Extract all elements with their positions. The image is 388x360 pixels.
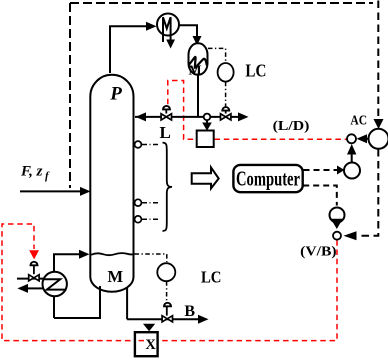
ratio station circle xyxy=(344,163,360,179)
drum liquid level xyxy=(189,57,206,68)
dashed computer to ratio station xyxy=(304,169,339,171)
reboiler bottom loop xyxy=(53,296,55,318)
arrow into column base xyxy=(79,250,90,259)
outer dashed border left xyxy=(69,3,71,188)
outer dashed border right lower xyxy=(357,149,378,236)
dashed LC to B valve xyxy=(166,281,168,301)
condenser coolant coil xyxy=(163,17,171,42)
steam inlet line xyxy=(17,278,43,280)
svg-text:M: M xyxy=(108,267,124,286)
svg-text:F, z: F, z xyxy=(20,164,43,180)
condensate out line xyxy=(27,287,43,289)
svg-text:AC: AC xyxy=(350,113,367,128)
condenser outlet pipe xyxy=(179,25,197,37)
analyzer box X xyxy=(135,332,158,356)
svg-text:X: X xyxy=(145,337,156,353)
svg-text:LC: LC xyxy=(245,60,266,80)
svg-text:(V/B): (V/B) xyxy=(300,245,337,260)
reboiler coil xyxy=(43,279,66,289)
red dash visible inside analyzer box xyxy=(139,340,144,342)
column vapor pipe xyxy=(110,26,150,73)
big hollow arrow xyxy=(192,167,219,188)
V/B station triangle xyxy=(331,219,343,229)
arrow into reflux drum xyxy=(193,36,202,46)
AC junction small circle xyxy=(347,134,356,143)
svg-text:B: B xyxy=(184,303,195,320)
tray sensor 2 xyxy=(135,199,142,206)
steam valve actuator xyxy=(31,262,38,265)
valve L (reflux) xyxy=(161,114,171,120)
V/B station circle xyxy=(330,208,345,223)
Computer box xyxy=(233,165,302,192)
curly brace xyxy=(163,143,173,231)
red arrow onto steam valve xyxy=(29,250,39,259)
condenser U1 xyxy=(157,14,179,36)
column bottoms level wavy line xyxy=(91,253,134,255)
svg-text:P: P xyxy=(109,84,122,105)
condensate out arrow xyxy=(17,284,28,293)
valve L (reflux) actuator xyxy=(163,106,170,109)
valve D (distillate) xyxy=(221,114,231,120)
outer dashed border top xyxy=(70,2,373,4)
feed line xyxy=(20,190,81,192)
svg-text:M: M xyxy=(188,64,201,79)
dashed LC to D valve xyxy=(225,82,227,107)
red dashed signal V/B to reboiler valve xyxy=(2,224,337,341)
steam valve stem xyxy=(33,265,35,274)
column bottom left pipe xyxy=(54,286,100,318)
feed arrow xyxy=(80,187,91,196)
level controller LC (bottom) xyxy=(157,263,175,281)
svg-text:(L/D): (L/D) xyxy=(273,119,310,134)
distillate line xyxy=(135,116,242,118)
reboiler E1 xyxy=(43,272,67,296)
arrow into multiplier box xyxy=(206,120,208,123)
V/B junction small circle xyxy=(333,232,341,240)
svg-text:L: L xyxy=(160,123,171,142)
svg-text:Computer: Computer xyxy=(236,167,300,191)
tray sensor 3 xyxy=(135,216,142,223)
arrow into X analyzer xyxy=(143,324,155,332)
reboiler circulation riser xyxy=(54,254,80,272)
coolant out arrow xyxy=(166,40,175,49)
valve B actuator xyxy=(164,303,171,306)
reflux drum xyxy=(189,43,208,74)
bottoms line B xyxy=(127,318,202,320)
valve B xyxy=(162,316,172,322)
column shell xyxy=(90,75,133,292)
dashed computer to V/B xyxy=(303,186,337,206)
drum down pipe xyxy=(197,74,199,117)
flow sensor dot on distillate line xyxy=(204,114,211,121)
arrow into V/B junction xyxy=(344,231,357,240)
distillate product arrow xyxy=(238,112,249,121)
outer dashed border right upper xyxy=(377,1,379,120)
arrow into condenser xyxy=(146,22,157,31)
reflux arrow into column xyxy=(136,112,147,121)
line ratio to AC junction with up arrow xyxy=(351,147,353,163)
valve D (distillate) actuator xyxy=(222,107,229,111)
multiplier box xyxy=(197,131,214,148)
column bottom right pipe xyxy=(126,287,128,319)
red dashed signal L valve to multiplier box xyxy=(168,81,196,140)
svg-text:LC: LC xyxy=(201,267,222,286)
AC controller circle xyxy=(369,129,388,149)
steam valve xyxy=(29,275,39,281)
level controller LC (top) xyxy=(218,63,234,82)
arrow AC to junction xyxy=(365,138,368,140)
arrow into AC controller xyxy=(374,119,384,129)
red dashed signal box to AC junction xyxy=(215,138,347,140)
B product arrow xyxy=(198,315,209,324)
dashed column level to LC bottom xyxy=(135,254,167,262)
dashed drum to LC xyxy=(208,48,226,62)
tray sensor 1 xyxy=(135,141,142,148)
